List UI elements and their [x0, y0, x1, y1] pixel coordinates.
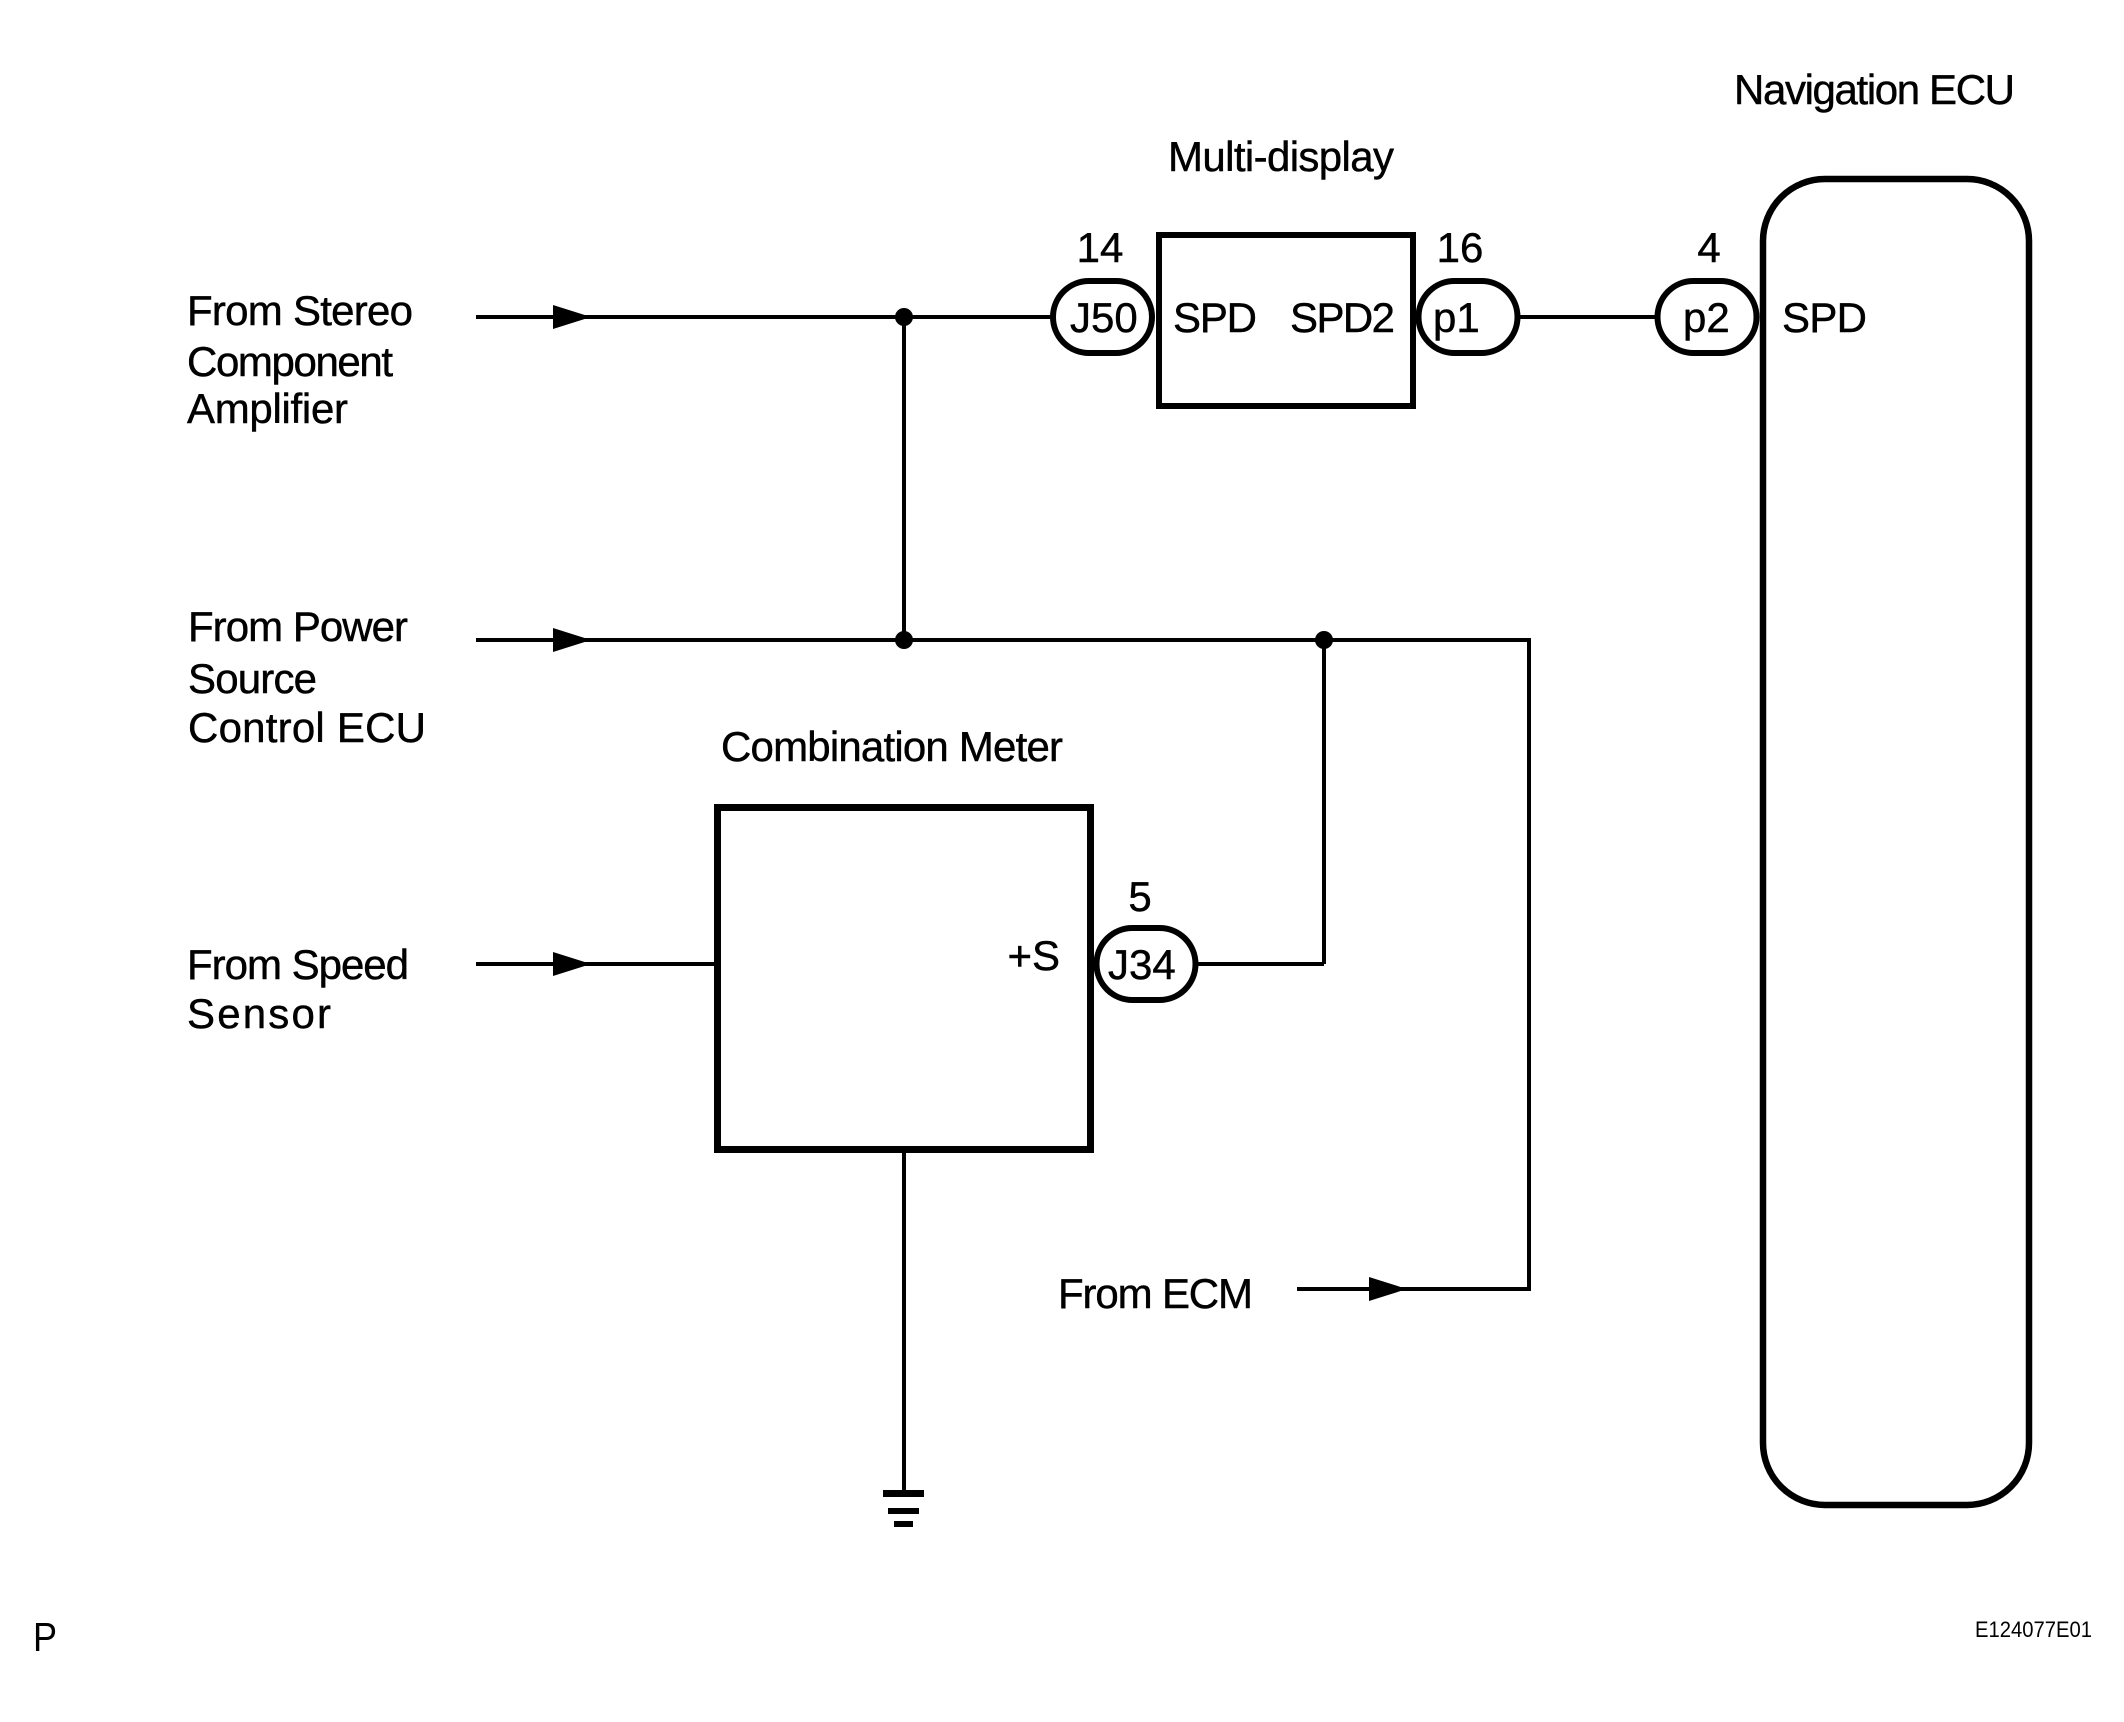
- svg-text:SPD: SPD: [1173, 294, 1257, 341]
- svg-text:14: 14: [1077, 224, 1124, 271]
- svg-text:Source: Source: [188, 655, 317, 702]
- svg-text:Amplifier: Amplifier: [187, 385, 348, 432]
- svg-text:J50: J50: [1070, 294, 1138, 341]
- svg-text:From ECM: From ECM: [1058, 1270, 1253, 1317]
- svg-text:SPD: SPD: [1782, 294, 1867, 341]
- svg-text:P: P: [33, 1614, 57, 1660]
- svg-text:+S: +S: [1007, 932, 1060, 979]
- svg-text:Component: Component: [187, 338, 393, 385]
- svg-text:Sensor: Sensor: [187, 990, 331, 1037]
- svg-text:4: 4: [1697, 224, 1720, 271]
- svg-text:p1: p1: [1433, 294, 1480, 341]
- svg-text:J34: J34: [1108, 941, 1176, 988]
- svg-text:Navigation ECU: Navigation ECU: [1734, 66, 2015, 113]
- svg-text:From Speed: From Speed: [187, 941, 409, 988]
- svg-text:Multi-display: Multi-display: [1168, 133, 1394, 180]
- svg-text:Combination Meter: Combination Meter: [721, 723, 1063, 770]
- svg-text:E124077E01: E124077E01: [1975, 1617, 2092, 1642]
- svg-text:From Stereo: From Stereo: [187, 287, 413, 334]
- svg-text:From Power: From Power: [188, 603, 408, 650]
- svg-text:SPD2: SPD2: [1290, 294, 1395, 341]
- svg-text:p2: p2: [1683, 294, 1730, 341]
- svg-text:16: 16: [1437, 224, 1484, 271]
- svg-text:Control ECU: Control ECU: [188, 704, 426, 751]
- svg-text:5: 5: [1128, 873, 1151, 920]
